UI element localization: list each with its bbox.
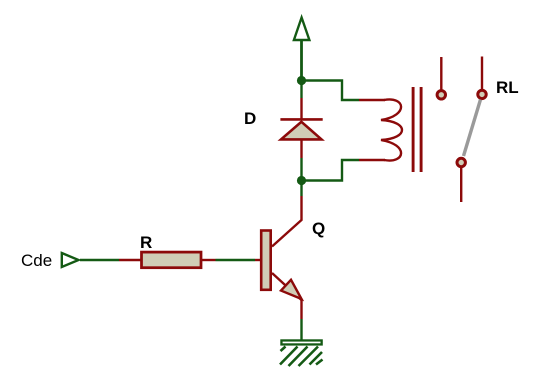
wire: resistor to base (216, 259, 256, 261)
transistor Q collector lead (272, 196, 302, 247)
label R (140, 234, 152, 251)
wire: input to resistor (80, 259, 119, 261)
relay core line 1 (412, 87, 415, 172)
node: lower junction (297, 176, 306, 185)
diode D cathode bar (280, 118, 322, 121)
resistor R body (142, 252, 202, 268)
relay contact left stub (440, 57, 442, 90)
input terminal Cde triangle (62, 253, 79, 267)
label Cde (21, 252, 52, 269)
relay contact left circle (437, 91, 445, 99)
transistor Q base bar (261, 231, 271, 290)
diode D lead top (red) (300, 98, 302, 120)
label D (244, 110, 256, 127)
relay contact right circle (478, 90, 486, 98)
node: upper junction (297, 76, 306, 85)
ground bar (281, 340, 321, 344)
diode D triangle (281, 122, 322, 140)
transistor Q base lead (red) (255, 259, 261, 261)
wire: emitter down (red part) (300, 301, 302, 320)
transistor Q emitter lead (272, 273, 302, 301)
wire: lower junction down to collector (300, 181, 302, 197)
relay contact bottom lead (460, 168, 462, 203)
label RL (496, 79, 519, 96)
wire: upper junction to coil top (302, 81, 360, 101)
wire: lower junction to coil bottom (302, 160, 360, 181)
ground hatch (280, 347, 323, 367)
relay contact bottom circle (457, 158, 465, 166)
wire: junction down to diode (300, 81, 302, 99)
power terminal VCC arrow (294, 18, 310, 82)
wire: emitter to ground (green) (300, 319, 302, 340)
resistor R right lead (202, 259, 216, 261)
transistor Q emitter arrow (281, 280, 302, 299)
wire: diode to lower junction (300, 158, 302, 181)
label Q (312, 220, 325, 237)
relay core line 2 (420, 87, 423, 172)
relay contact right stub (481, 57, 483, 91)
relay coil RL winding (381, 99, 402, 160)
wire coil top lead (red) (359, 99, 385, 101)
wire coil bottom lead (red) (359, 159, 385, 161)
resistor R left lead (119, 259, 141, 261)
diode D lead bottom (red) (300, 139, 302, 158)
relay switch blade (464, 100, 481, 157)
